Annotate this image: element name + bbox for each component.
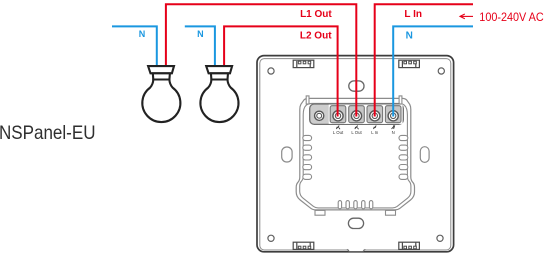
terminal symbol L2 — [355, 126, 359, 130]
svg-text:L In: L In — [371, 130, 379, 135]
lamp 2 — [200, 66, 238, 122]
wire L1 Out red — [166, 4, 356, 116]
svg-text:N: N — [197, 29, 204, 39]
bottom center notch — [347, 248, 365, 252]
terminal L In — [370, 111, 380, 121]
clip bottom-left — [293, 242, 314, 249]
wire N bulb2 blue — [185, 26, 215, 66]
svg-text:L In: L In — [404, 9, 422, 20]
terminal symbol N — [392, 126, 395, 129]
lamp2 cap — [206, 66, 232, 73]
terminal N — [388, 111, 398, 121]
bracket side bumps right — [399, 135, 408, 179]
bracket inner outline — [300, 103, 411, 207]
side slot left — [282, 147, 292, 162]
wire N right blue — [393, 26, 473, 116]
lamp1 neck — [153, 73, 170, 79]
svg-text:L Out: L Out — [351, 130, 362, 135]
arrow to 100-240V AC — [460, 14, 473, 19]
svg-text:N: N — [392, 130, 395, 135]
bracket wing tab left — [306, 96, 309, 104]
bracket foot tab right — [386, 210, 396, 215]
bracket comb teeth — [338, 201, 373, 209]
terminal cells — [329, 105, 403, 124]
lamp1 glass — [142, 80, 180, 123]
wire L In red — [375, 4, 473, 116]
lamp2 neck — [211, 73, 228, 79]
terminal symbol L In — [373, 126, 376, 129]
clip bottom-right — [399, 242, 420, 249]
terminal symbol L1 — [336, 126, 340, 130]
side slot right — [420, 147, 429, 163]
svg-text:N: N — [406, 30, 413, 41]
bracket outer outline — [296, 98, 414, 209]
svg-text:L Out: L Out — [333, 130, 344, 135]
lamp2 glass — [200, 80, 238, 123]
terminal block bar — [310, 104, 404, 124]
oval bottom — [348, 218, 363, 228]
bracket side bumps left — [303, 135, 312, 179]
svg-text:100-240V AC: 100-240V AC — [479, 10, 544, 24]
wire L2 Out red — [224, 26, 338, 116]
panel inner frame — [260, 59, 451, 250]
screw hole top-left — [268, 68, 274, 74]
lamp1 cap — [148, 66, 174, 73]
clip top-left — [293, 60, 314, 67]
bracket wing tab right — [399, 96, 402, 104]
bracket foot tab left — [315, 210, 325, 215]
svg-text:NSPanel-EU: NSPanel-EU — [0, 122, 96, 144]
oval top — [349, 81, 364, 91]
screw hole bottom-left — [268, 235, 274, 241]
terminal L2 Out — [351, 111, 361, 121]
svg-text:N: N — [139, 29, 146, 39]
terminal 0 (empty) — [315, 111, 324, 120]
terminal L1 Out — [333, 111, 343, 121]
wire N bulb1 blue — [112, 26, 157, 66]
svg-text:L2 Out: L2 Out — [300, 30, 332, 41]
lamp 1 — [142, 66, 180, 122]
clip top-right — [399, 60, 420, 67]
screw hole top-right — [438, 68, 444, 74]
panel outer frame — [257, 56, 454, 252]
svg-text:L1 Out: L1 Out — [300, 9, 332, 20]
screw hole bottom-right — [437, 235, 443, 241]
